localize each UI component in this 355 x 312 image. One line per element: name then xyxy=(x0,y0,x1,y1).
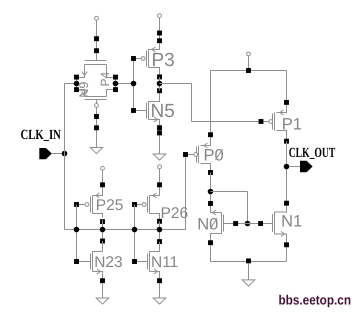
wire inverter1 output column xyxy=(159,77,161,91)
wire P26/N11 gate column xyxy=(134,205,136,262)
pin square N23 drain xyxy=(100,239,105,244)
wire N23 source to ground xyxy=(102,283,104,298)
node CLK_OUT junction xyxy=(284,164,290,170)
pin CLK_OUT (output arrow) xyxy=(300,161,313,173)
power VDD connector (top-left, above pass gate) xyxy=(95,16,99,20)
wire VDD rail (top right) xyxy=(211,70,287,72)
wire VDD stem to P3 source xyxy=(159,18,161,44)
ground (below pass gate) xyxy=(90,148,103,154)
wire N11 drain stem xyxy=(159,242,161,252)
wire CLK_IN pin stub xyxy=(52,153,62,155)
node pass-gate right terminal xyxy=(113,75,134,92)
wire VDD connector stem xyxy=(248,56,250,71)
ground (below N0/N1 rail) xyxy=(242,280,255,286)
wire P1 drain to CLK_OUT node xyxy=(286,141,288,201)
wire riser to P0 gate xyxy=(185,157,187,230)
transistor P3 (PMOS) xyxy=(131,44,175,80)
transistor P4 (PMOS, horizontal, bottom half of pass gate) xyxy=(79,71,113,107)
wire gate net horizontal xyxy=(211,191,248,193)
node inverter1 output junction xyxy=(157,81,163,87)
transistor N1 (NMOS) xyxy=(258,201,302,248)
transistor N0 (NMOS, mirrored) xyxy=(197,201,238,245)
wire P0 drain to N0 drain xyxy=(210,173,212,204)
svg-text:N11: N11 xyxy=(151,254,178,271)
node pass-gate left terminal xyxy=(65,75,80,92)
wire pass-gate bottom gate to ground xyxy=(96,107,98,147)
wire N23 drain stem xyxy=(102,241,104,252)
node inverter2 output junction xyxy=(100,227,106,233)
pin square VDD stem xyxy=(157,31,162,36)
svg-text:N5: N5 xyxy=(151,101,175,122)
power VDD connector (above P26) xyxy=(158,165,162,169)
wire ground stem xyxy=(248,263,250,280)
wire VDD rail down to P1 source xyxy=(286,71,288,103)
pin square P26 source xyxy=(157,182,162,187)
wire N0 source to ground rail xyxy=(210,245,212,262)
wire inverter1 output to P1 gate xyxy=(160,84,259,122)
svg-text:CLK_OUT: CLK_OUT xyxy=(289,146,336,161)
svg-text:P0: P0 xyxy=(204,146,224,164)
transistor N5 (NMOS) xyxy=(131,88,175,130)
transistor N11 (NMOS) xyxy=(132,252,178,284)
power VDD connector (above P3) xyxy=(158,14,162,18)
power VDD connector (top right) xyxy=(247,52,251,56)
svg-text:P26: P26 xyxy=(161,205,189,222)
wire ground rail xyxy=(211,261,287,263)
pin square N11 drain xyxy=(157,239,162,244)
node bootstrap junction (P0 drain / N0 drain / gate net) xyxy=(208,189,214,195)
wire P25/N23 gate column xyxy=(76,205,78,262)
wire bottom horizontal bus xyxy=(65,229,186,231)
transistor P1 (PMOS) xyxy=(259,100,302,144)
node CLK_IN junction xyxy=(62,151,68,157)
pin square P25 source xyxy=(100,182,105,187)
ground (below N11) xyxy=(153,298,166,304)
wire N5 source to ground xyxy=(159,130,161,154)
node inverter3 output junction xyxy=(157,227,163,233)
wire VDD stem to P25 source xyxy=(102,170,104,191)
wire VDD stem to pass-gate top gate xyxy=(96,20,98,60)
wire N1 source to ground rail xyxy=(286,247,288,261)
wire inverter1 input gate column xyxy=(133,59,135,111)
transistor N9 (NMOS, horizontal, top half of pass gate) xyxy=(77,61,113,98)
pin square VDD stem upper xyxy=(94,36,99,41)
svg-text:N23: N23 xyxy=(94,254,122,271)
transistor P26 (PMOS) xyxy=(132,191,188,224)
node inverter1 input junction xyxy=(131,81,137,87)
wire CLK_OUT pin stub xyxy=(289,166,300,168)
wire P26 drain to N11 drain xyxy=(159,221,161,241)
wire VDD stem to P26 source xyxy=(159,169,161,191)
wire P25 drain to N23 drain xyxy=(102,220,104,241)
pin square VDD rail tap xyxy=(246,68,251,73)
wire gate net riser xyxy=(247,192,249,224)
node N0/N1 gate junction xyxy=(245,221,251,227)
pin CLK_IN (input arrow) xyxy=(39,148,52,159)
pin square pass-gate top gate xyxy=(94,48,99,53)
wire N0 gate to N1 gate xyxy=(224,223,273,225)
ground (below N23) xyxy=(96,298,109,304)
wire P0 source to VDD rail xyxy=(210,71,212,133)
svg-text:N0: N0 xyxy=(197,215,218,233)
svg-text:N1: N1 xyxy=(281,212,302,230)
pin square N5 source stem xyxy=(157,130,162,135)
svg-text:P25: P25 xyxy=(96,197,124,214)
node inverter3 input junction xyxy=(132,227,138,233)
transistor P0 (PMOS) xyxy=(183,132,224,175)
wire N11 source to ground xyxy=(159,283,161,298)
ground (below N5) xyxy=(153,154,166,160)
pin square P3 source xyxy=(157,38,162,43)
svg-text:P4: P4 xyxy=(98,71,112,86)
svg-text:P1: P1 xyxy=(282,115,302,133)
pin square ground stem xyxy=(94,125,99,130)
wire CLK_IN vertical xyxy=(64,84,66,230)
svg-text:P3: P3 xyxy=(152,50,175,71)
pin square ground rail tap xyxy=(246,258,251,263)
svg-text:CLK_IN: CLK_IN xyxy=(21,128,61,143)
power VDD connector (above P25) xyxy=(101,166,105,170)
node inverter2 input junction xyxy=(74,227,80,233)
svg-text:bbs.eetop.cn: bbs.eetop.cn xyxy=(279,293,352,308)
transistor N23 (NMOS) xyxy=(74,252,123,284)
pin square pass-gate bottom gate xyxy=(94,114,99,119)
transistor P25 (PMOS) xyxy=(74,191,123,224)
